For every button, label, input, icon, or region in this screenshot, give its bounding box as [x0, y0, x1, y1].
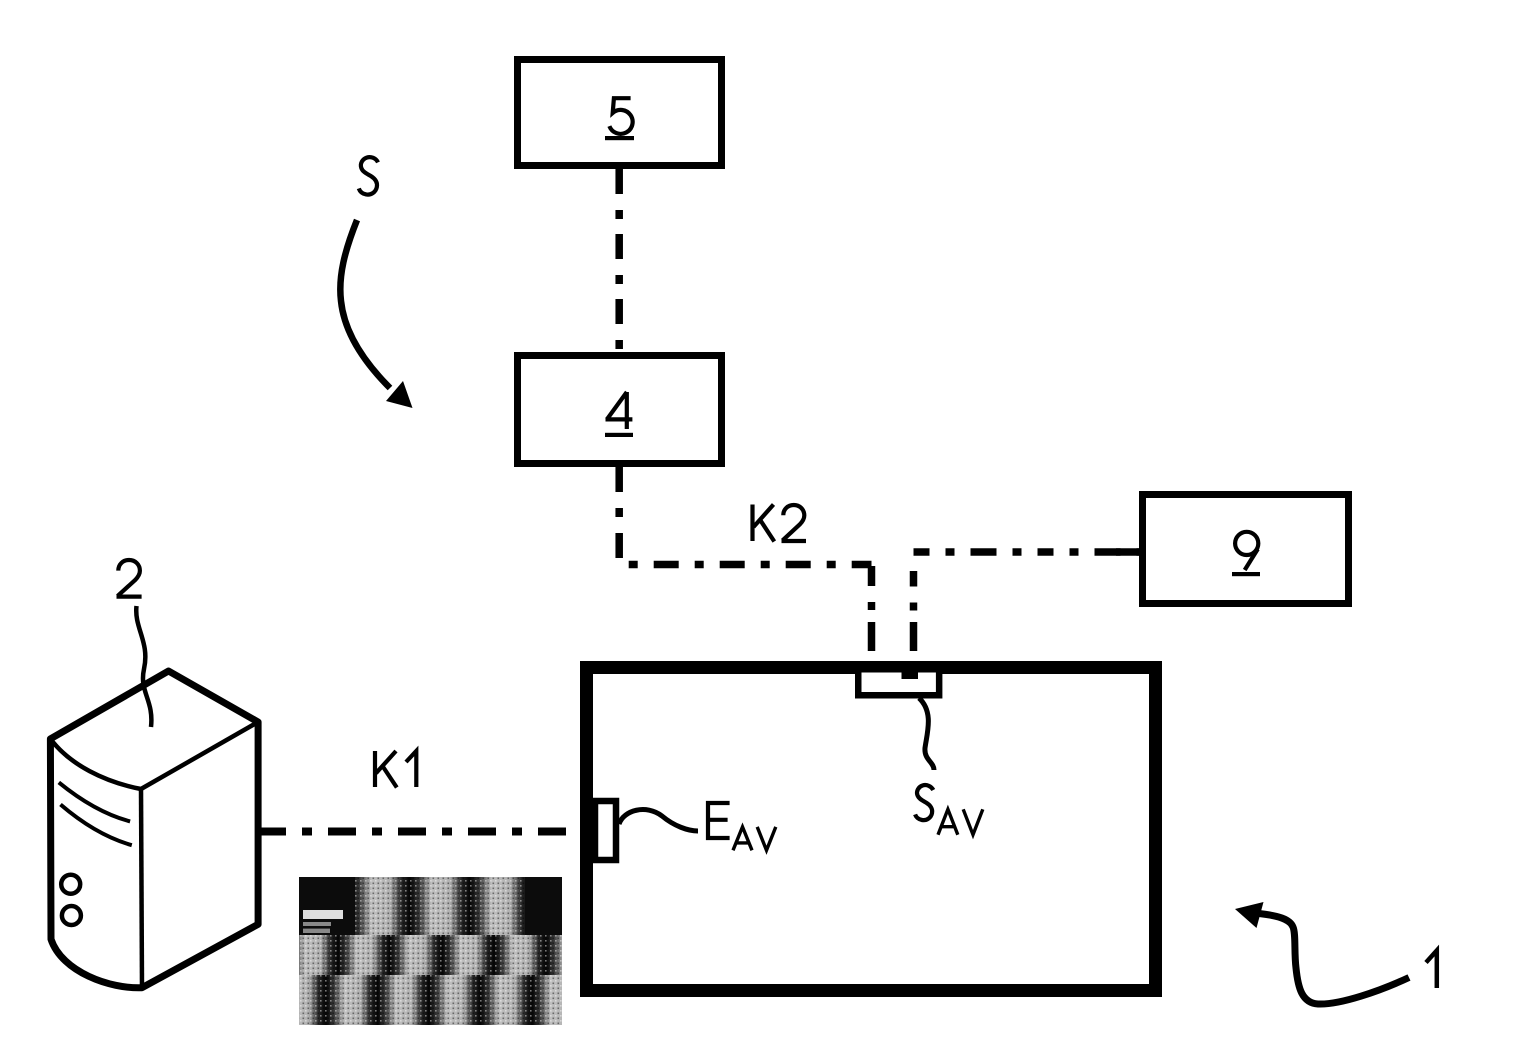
S_AV squiggle	[919, 698, 934, 770]
label K2	[753, 505, 807, 542]
tower front vertical edge	[141, 789, 142, 988]
label E_AV	[708, 803, 776, 850]
wire to box 9 dash-dot	[914, 548, 1140, 556]
label 2	[117, 560, 142, 597]
halftone picture	[299, 877, 562, 1025]
tower groove 2	[61, 805, 132, 846]
tower button 2	[62, 906, 81, 925]
label S_AV	[915, 785, 983, 835]
wire K2 from box4 to TV top connector	[619, 467, 871, 565]
E_AV squiggle	[619, 810, 698, 831]
TV box 1	[587, 668, 1156, 991]
digit 5	[609, 98, 632, 134]
digit 4	[606, 392, 633, 429]
box 5	[518, 60, 722, 166]
picture caption marks	[303, 910, 343, 919]
wire 5-4 dash-dot	[615, 169, 623, 351]
label S	[359, 157, 378, 194]
E_AV connector	[595, 801, 616, 860]
tower outline	[50, 671, 258, 988]
arrow 1	[1259, 914, 1409, 1005]
label K1	[375, 751, 416, 788]
wire branch down to S_AV connector	[910, 571, 918, 651]
digit 9	[1235, 532, 1258, 570]
label 1	[1426, 951, 1437, 989]
box 4	[518, 356, 722, 464]
underline 5	[605, 136, 634, 140]
tower top-front edge	[50, 739, 141, 789]
tower button 1	[61, 875, 80, 894]
S arrow	[340, 220, 390, 388]
S_AV connector	[858, 669, 939, 695]
box 9	[1143, 495, 1349, 604]
underline 9	[1232, 572, 1260, 576]
wire K1 dash-dot	[258, 828, 580, 836]
squiggle from 2 to tower	[136, 606, 151, 727]
tower groove 1	[59, 782, 130, 821]
computer tower 2	[50, 671, 258, 988]
underline 4	[605, 433, 633, 437]
tower top-right edge	[141, 722, 258, 789]
wire K2 vertical drop to TV top edge	[868, 566, 876, 651]
